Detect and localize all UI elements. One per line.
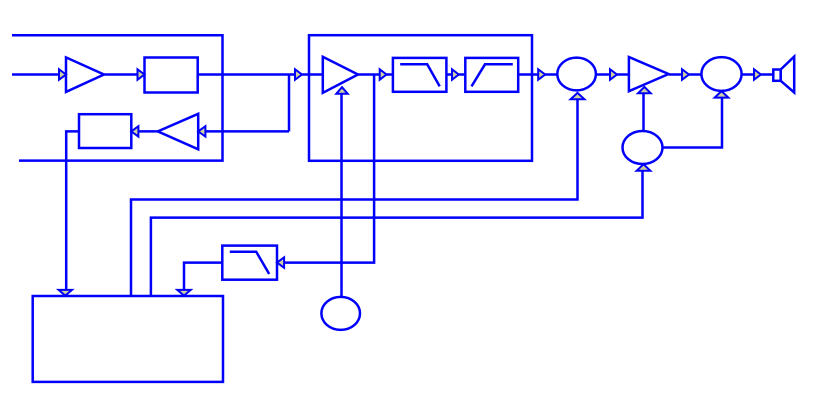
arrowhead control up into M3	[637, 164, 651, 171]
wire: block B1 output across to subsystem U2	[198, 73, 323, 76]
arrowhead control up into A4	[638, 87, 651, 93]
wire: control box U3 to M1 control (feedback A)	[131, 99, 578, 296]
wire: F1 to F2	[446, 73, 465, 76]
op-amp A3 (VCA inside U2)	[323, 57, 358, 93]
wire: inverter A2 to block B2	[131, 130, 158, 133]
speaker LS1	[773, 57, 794, 93]
op-amp A1 (input buffer)	[66, 57, 104, 92]
wire: F3 output to control box U3	[184, 263, 222, 291]
oscillator OSC1 (LFO circle)	[321, 297, 360, 330]
op-amp A2 (feedback inverter, pointing left)	[158, 114, 198, 150]
wire: A3 output to filter F1	[358, 73, 393, 76]
wire: M3 up to A4 control	[642, 93, 645, 131]
wire: control box U3 to M3 control (feedback B)	[151, 172, 643, 297]
box U3 (control / analysis box)	[33, 296, 223, 382]
arrowhead control up into M1	[571, 93, 585, 99]
box U2 (processing subsystem)	[309, 35, 532, 161]
arrowhead into box U2	[295, 69, 302, 79]
multiplier M1 (circle)	[557, 58, 596, 91]
arrowhead into filter F2	[452, 69, 459, 79]
arrowhead down into control box U3 (left)	[59, 290, 72, 296]
arrowhead into amp A1	[59, 69, 66, 79]
arrowhead into multiplier M1	[538, 69, 545, 79]
wire: F2 output out of U2 to multiplier M1	[518, 73, 557, 76]
wire: feedback run to inverter A2	[198, 130, 289, 133]
wire: M2 to speaker	[742, 73, 774, 76]
wire: M3 output right and up to M2 control	[663, 98, 723, 148]
wire: M1 to amp A4	[596, 73, 629, 76]
op-amp A4 (output VCA)	[629, 57, 669, 91]
box U1 (top-left subsystem, open left side)	[12, 35, 223, 160]
arrowhead into speaker	[754, 69, 761, 79]
arrowhead into amp A4	[610, 69, 617, 79]
wire: A4 to multiplier M2	[669, 73, 702, 76]
wire: amp A1 to block B1	[104, 73, 145, 76]
multiplier M2 (circle)	[701, 57, 741, 91]
multiplier M3 (lower circle)	[623, 131, 663, 164]
wire: input line into amp A1	[12, 73, 66, 76]
block B1	[145, 58, 198, 93]
block B2	[79, 114, 131, 148]
filter F2 (high-pass)	[465, 58, 518, 92]
arrowhead into filter F1	[380, 69, 387, 79]
arrowhead into block B2	[131, 126, 138, 136]
wire: block B2 output down to control box U3	[66, 131, 79, 290]
arrowhead into block B1	[138, 69, 145, 79]
filter F3 (low-pass envelope)	[222, 246, 277, 280]
arrowhead into filter F3 (pointing left)	[277, 257, 284, 267]
arrowhead into inverter A2	[198, 126, 205, 136]
arrowhead control up into M2	[715, 91, 729, 98]
wire: feedback tap drop at node after B1	[288, 75, 291, 132]
arrowhead control input up into A3	[336, 87, 347, 94]
arrowhead into multiplier M2	[682, 69, 689, 79]
arrowhead down into control box U3 (right)	[177, 290, 190, 296]
wire: OSC1 up to A3 control	[340, 94, 343, 297]
wire: signal tap after A3 down to envelope filter F3	[277, 75, 374, 263]
filter F1 (low-pass)	[393, 58, 447, 92]
